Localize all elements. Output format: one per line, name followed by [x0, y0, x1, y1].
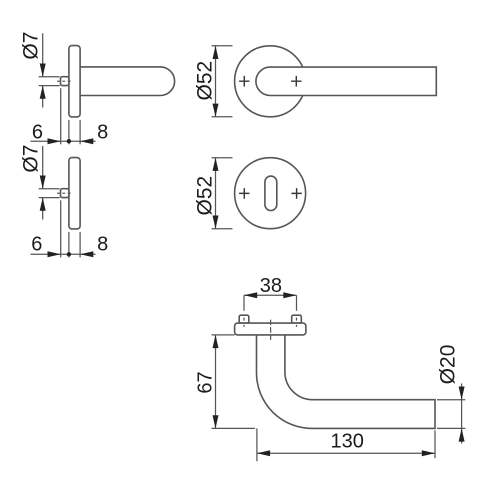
svg-text:Ø52: Ø52 [193, 176, 216, 216]
svg-text:38: 38 [260, 275, 282, 297]
spindle stub [61, 189, 69, 198]
spindle centerline [57, 80, 72, 82]
spindle centerline [57, 192, 72, 194]
rose side profile [69, 46, 80, 117]
screw cross right [291, 188, 301, 199]
dimension 6 / 8 (view A) [31, 88, 96, 144]
dimension 6 / 8 (view C) [31, 200, 96, 257]
svg-text:Ø7: Ø7 [19, 145, 42, 173]
dimension Ø20 [437, 384, 465, 444]
spindle stub [61, 77, 69, 86]
rose side profile [69, 158, 80, 229]
lever grip side profile [80, 67, 175, 96]
svg-text:67: 67 [195, 371, 217, 393]
mounting plate (rose top view) [235, 323, 306, 335]
dimension 67 [212, 335, 255, 429]
dimension 130 [257, 428, 435, 461]
svg-text:6: 6 [32, 121, 43, 143]
svg-text:8: 8 [97, 121, 108, 143]
dimension Ø52 (view B) [212, 46, 233, 117]
svg-text:130: 130 [331, 431, 364, 453]
screw stud left [239, 315, 249, 323]
svg-text:8: 8 [97, 234, 108, 256]
rose front circle [235, 46, 306, 117]
centerline [270, 320, 272, 340]
dimension 38 [244, 295, 297, 327]
svg-text:Ø20: Ø20 [437, 345, 460, 385]
screw cross right [291, 76, 301, 87]
dimension Ø52 (view D) [212, 158, 233, 229]
keyhole slot [265, 176, 277, 210]
svg-text:6: 6 [31, 234, 42, 256]
lever bar front [256, 67, 436, 95]
dimension Ø7 (view A) [39, 33, 60, 107]
handle neck and grip outline [257, 335, 436, 429]
svg-text:Ø52: Ø52 [193, 61, 216, 101]
screw cross left [239, 76, 249, 87]
svg-text:Ø7: Ø7 [19, 32, 42, 60]
screw stud right [292, 315, 302, 323]
dimension Ø7 (view C) [39, 146, 60, 220]
rose front circle [235, 158, 306, 229]
screw cross left [239, 188, 249, 199]
